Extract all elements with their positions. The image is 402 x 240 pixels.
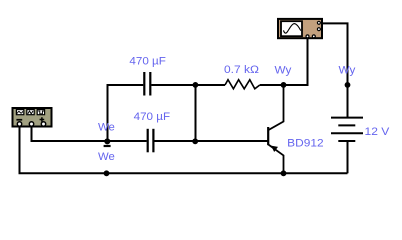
svg-text:Wy: Wy [339,65,356,77]
capacitor C2 left plate [147,129,149,153]
svg-text:Wy: Wy [275,65,292,77]
function generator sine button [16,110,23,115]
wire middle rail C2 to base of Q1 [154,140,268,142]
battery V1 lower long plate [331,132,363,134]
capacitor C2 right plate [152,129,154,153]
function generator triangle button glyph [28,111,33,114]
node We polarity minus mark [104,145,111,147]
svg-text:12 V: 12 V [365,126,391,138]
oscilloscope terminal T [312,35,315,38]
battery V1 upper short plate [338,124,355,126]
junction dot emitter bottom rail [281,170,287,176]
resistor R1 zigzag [225,80,260,89]
node Wy junction dot collector [281,82,287,88]
wire battery bottom to ground rail [347,142,349,174]
function generator minus sign [16,119,22,121]
oscilloscope XSC1 body [278,19,322,38]
svg-text:470 µF: 470 µF [134,111,171,123]
oscilloscope screen [281,21,302,36]
capacitor C1 right plate [149,72,151,96]
oscilloscope screen sine trace [284,24,301,34]
svg-text:We: We [98,122,115,134]
transistor Q1 emitter arrow (PNP) [271,146,278,152]
svg-text:470 µF: 470 µF [129,55,166,67]
wire oscilloscope right terminal to battery top [320,23,348,117]
node Wy junction dot battery [345,82,351,88]
function generator plus sign [40,117,45,122]
wire bottom rail [20,127,348,173]
battery V1 top long plate [331,117,363,119]
node We junction dot bottom rail [104,170,110,176]
function generator XFG1 body [13,108,52,127]
wire vertical node We riser [195,85,197,141]
transistor Q1 base bar [267,127,269,145]
wire top from left corner to C1 [108,85,144,141]
function generator terminal minus [17,122,21,126]
function generator sine button glyph [17,111,22,113]
function generator square button [37,110,44,115]
function generator triangle button [27,110,34,115]
oscilloscope terminal B [317,28,320,31]
svg-text:0.7 kΩ: 0.7 kΩ [224,64,259,76]
wire middle rail from function generator to C2 [32,127,147,141]
function generator square button glyph [38,111,44,114]
svg-text:BD912: BD912 [287,138,323,150]
battery V1 bottom short plate [338,140,355,142]
wire top C1 to R1 [151,84,225,86]
oscilloscope terminal A [317,21,320,24]
svg-text:We: We [98,151,115,163]
oscilloscope terminal G [306,35,309,38]
function generator terminal plus [41,122,45,126]
transistor Q1 collector lead [269,85,284,130]
wire collector node to oscilloscope bottom terminal [284,38,308,85]
function generator terminal common [29,122,33,126]
wire top R1 to collector node [260,84,284,86]
node We junction dot upper [104,138,110,144]
transistor Q1 emitter lead [269,145,284,174]
junction dot C2 right riser [192,138,198,144]
junction dot top rail left [193,82,199,88]
capacitor C1 left plate [143,72,145,96]
